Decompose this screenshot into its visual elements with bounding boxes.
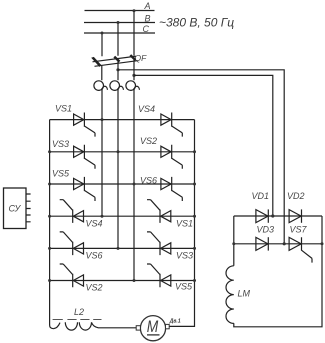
svg-text:VS1: VS1 [55, 104, 72, 114]
svg-text:LM: LM [238, 289, 251, 299]
svg-text:L2: L2 [74, 307, 84, 317]
svg-text:QF: QF [135, 53, 148, 63]
svg-text:VD3: VD3 [257, 225, 275, 235]
svg-text:VS4: VS4 [86, 219, 103, 229]
svg-text:VS2: VS2 [86, 283, 103, 293]
svg-text:VD2: VD2 [287, 191, 305, 201]
svg-text:M: M [147, 317, 159, 336]
svg-text:VS1: VS1 [176, 219, 193, 229]
svg-text:VS2: VS2 [140, 136, 157, 146]
svg-text:C: C [143, 24, 150, 34]
svg-text:VS3: VS3 [52, 139, 69, 149]
svg-text:VS5: VS5 [175, 282, 193, 292]
svg-text:VD1: VD1 [252, 191, 270, 201]
svg-text:VS6: VS6 [86, 251, 103, 261]
svg-text:VS4: VS4 [138, 104, 155, 114]
svg-text:VS3: VS3 [176, 251, 193, 261]
svg-text:СУ: СУ [9, 204, 22, 214]
svg-text:B: B [145, 14, 151, 24]
svg-text:~380 В, 50 Гц: ~380 В, 50 Гц [159, 16, 234, 30]
svg-text:VS6: VS6 [140, 176, 157, 186]
svg-text:Дв.1: Дв.1 [169, 318, 181, 324]
svg-text:A: A [144, 1, 151, 11]
svg-text:VS5: VS5 [52, 169, 70, 179]
svg-text:VS7: VS7 [290, 225, 308, 235]
